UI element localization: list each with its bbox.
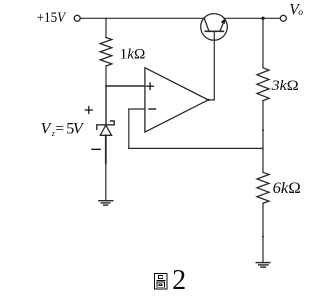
wire +15V rail left segment to transistor	[81, 17, 204, 19]
wire between 3k and 6k	[262, 101, 264, 173]
op-amp minus input label	[149, 108, 156, 110]
svg-text:2: 2	[172, 265, 186, 296]
zener plus polarity label	[85, 107, 92, 114]
zener minus polarity label	[92, 148, 100, 150]
svg-text:+15V: +15V	[37, 9, 67, 26]
resistor 6kOhm zigzag	[257, 172, 269, 203]
node +15V terminal circle	[74, 15, 80, 21]
node Vo terminal circle	[280, 15, 286, 21]
wire node A to op-amp non-inverting input	[106, 85, 145, 87]
wire base riser vertical	[213, 31, 215, 100]
wire 1k resistor bottom lead to node A	[105, 66, 107, 86]
resistor 3kOhm zigzag	[257, 68, 269, 101]
stray dot on divider wire upper	[262, 129, 264, 131]
svg-text:V: V	[73, 121, 85, 138]
stray dot on divider wire lower	[262, 236, 264, 238]
transistor Q1 circle	[201, 14, 228, 41]
wire 1k resistor top lead	[105, 18, 107, 37]
junction dot op-amp apex	[207, 99, 209, 101]
label Vz = 5V	[41, 121, 85, 138]
transistor Q1 emitter arrowhead	[221, 18, 226, 24]
wire inverting input	[129, 108, 145, 110]
junction dot rail at divider	[261, 17, 264, 20]
wire 6k to ground	[262, 203, 264, 262]
svg-text:=: =	[55, 121, 64, 138]
ground symbol right	[256, 263, 270, 268]
op-amp U1 triangle	[145, 68, 208, 132]
zener diode D1 cathode bar with bent ends	[97, 121, 114, 129]
caption hanzi TU (figure) drawn glyph	[155, 273, 168, 289]
wire zener anode lower lead	[105, 163, 107, 200]
wire zener anode to ground (thick)	[105, 135, 107, 163]
zener diode D1 triangle	[100, 125, 111, 135]
wire op-amp output to base riser	[208, 99, 214, 101]
wire feedback vertical	[128, 109, 130, 148]
svg-text:6kΩ: 6kΩ	[273, 181, 301, 197]
wire rail right segment transistor to Vo	[225, 17, 281, 19]
op-amp plus input label	[147, 83, 154, 90]
wire node A down to zener cathode	[105, 86, 107, 125]
ground symbol left	[99, 201, 113, 205]
wire feedback horizontal to divider node	[129, 147, 263, 149]
wire divider top vertical	[262, 18, 264, 68]
transistor Q1 collector lead left	[204, 19, 209, 32]
svg-text:3kΩ: 3kΩ	[271, 78, 299, 94]
transistor Q1 emitter lead right	[220, 21, 224, 32]
resistor 1kOhm zigzag	[100, 38, 112, 67]
svg-text:o: o	[298, 8, 303, 18]
transistor Q1 base bar	[205, 30, 223, 32]
svg-text:1kΩ: 1kΩ	[120, 47, 146, 63]
